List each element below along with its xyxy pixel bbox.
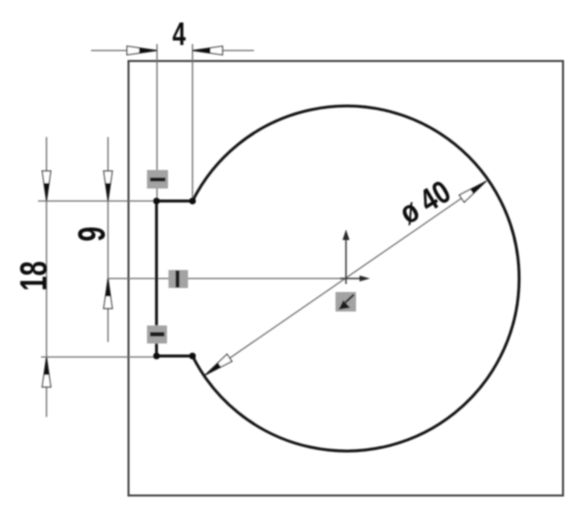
extension line y=357 (notch bottom) xyxy=(41,356,157,358)
extension line x=192.5 (dim 4 right) xyxy=(192,44,194,201)
origin horizontal axis arrow xyxy=(340,276,370,282)
extension line x=157 (dim 4 left) xyxy=(156,44,158,201)
diameter dimension line xyxy=(205,181,487,375)
svg-text:4: 4 xyxy=(172,15,186,51)
sketch circle arc xyxy=(193,106,520,451)
origin vertical axis arrow xyxy=(343,230,350,285)
dim 9 bottom arrow xyxy=(104,279,113,309)
extension line y=201 (notch top) xyxy=(38,200,157,202)
svg-text:ø 40: ø 40 xyxy=(394,175,457,232)
constraint icon horizontal (bottom) xyxy=(147,326,167,344)
dia arrow lower-left xyxy=(205,354,232,375)
endpoint dot bottom-right xyxy=(189,353,196,360)
svg-text:18: 18 xyxy=(13,261,56,291)
sketch notch vertical segment xyxy=(155,201,158,356)
sketch notch bottom segment xyxy=(157,355,193,358)
dim 4 arrow left xyxy=(127,46,157,55)
dimension 4 line left xyxy=(91,50,157,52)
dim 18 top arrow xyxy=(42,171,51,201)
endpoint dot top-right xyxy=(189,198,196,205)
endpoint dot bottom-left xyxy=(153,353,160,360)
dim 9 top arrow xyxy=(104,171,113,201)
constraint icon vertical (middle on centerline) xyxy=(169,270,189,288)
fixed constraint icon at origin xyxy=(336,292,357,312)
dimension 18 line xyxy=(46,137,48,417)
svg-text:9: 9 xyxy=(71,227,114,242)
dia arrow upper-right xyxy=(459,181,486,202)
dim 4 arrow right xyxy=(193,46,223,55)
border frame xyxy=(129,61,564,496)
dimension 4 line right xyxy=(193,50,255,52)
centerline y=278.5 xyxy=(108,278,346,280)
dim 18 bottom arrow xyxy=(42,357,51,387)
sketch notch top segment xyxy=(157,200,193,203)
constraint icon horizontal (top) xyxy=(147,170,168,189)
dimension 9 line xyxy=(107,137,109,342)
endpoint dot top-left xyxy=(153,198,160,205)
